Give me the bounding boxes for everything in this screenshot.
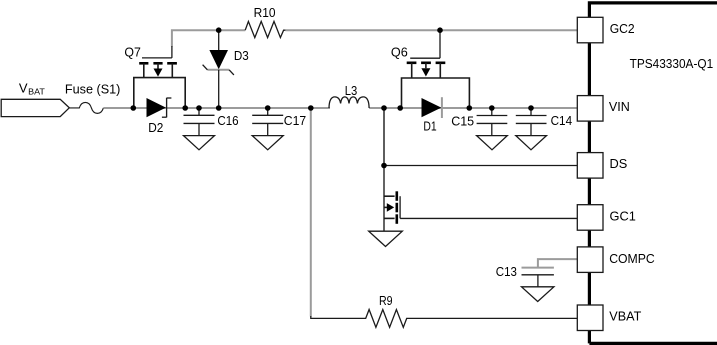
capacitor C17 (252, 108, 306, 136)
wire COMPC net (gray) (538, 259, 579, 267)
resistor R9 (311, 293, 578, 328)
svg-text:Fuse (S1): Fuse (S1) (65, 82, 121, 97)
svg-text:VBAT: VBAT (609, 308, 641, 323)
wire VBAT sense drop (gray) (310, 108, 312, 317)
capacitor C14 (516, 108, 572, 136)
fuse F1 "Fuse (S1)" (65, 82, 121, 114)
pin COMPC (577, 247, 655, 273)
svg-text:R10: R10 (254, 5, 276, 20)
svg-text:L3: L3 (345, 83, 358, 98)
capacitor C16 (184, 108, 239, 136)
wire main battery rail (gray) (103, 107, 330, 109)
svg-text:C16: C16 (217, 113, 238, 128)
pin GC2 (577, 17, 634, 43)
node switch node junction (381, 105, 387, 111)
node C16 junction (196, 105, 202, 111)
svg-text:D1: D1 (423, 118, 436, 133)
diode D1 (422, 97, 442, 133)
node C15 junction (489, 105, 495, 111)
pin VBAT (577, 305, 641, 331)
node Q6 source junction (397, 105, 403, 111)
transistor Q7 (P-ch reverse-battery MOSFET) (124, 44, 185, 108)
svg-text:C14: C14 (551, 113, 573, 128)
ground under low-side MOSFET (369, 231, 403, 246)
node D2 cathode / Q7 drain junction (182, 105, 188, 111)
svg-text:VIN: VIN (609, 99, 630, 114)
node Q6 gate-rail junction (437, 27, 443, 33)
wire gate rail GC2 left segment (gray) (172, 30, 245, 46)
transistor Q6 (P-ch disconnect MOSFET) (391, 30, 470, 108)
svg-text:GC1: GC1 (610, 209, 636, 224)
wire gate rail GC2 right segment (gray) (285, 29, 578, 31)
node DS junction (381, 163, 387, 169)
svg-text:D2: D2 (148, 120, 163, 135)
ground under C14 (516, 136, 547, 150)
IC U1 TPS43330A-Q1 body (589, 3, 717, 344)
wire GC1 gate net (400, 217, 578, 219)
ground under C13 (522, 287, 554, 302)
node C14 junction (528, 105, 534, 111)
inductor L3 (329, 83, 369, 108)
node D3 junction (216, 105, 222, 111)
capacitor C15 (451, 108, 507, 136)
capacitor C13 (496, 264, 554, 287)
resistor R10 (245, 5, 285, 38)
schottky diode D2 (147, 98, 172, 135)
svg-text:D3: D3 (234, 48, 249, 63)
svg-text:R9: R9 (379, 293, 393, 308)
zener diode D3 (203, 30, 249, 108)
svg-text:C15: C15 (451, 113, 474, 128)
pin DS (577, 153, 627, 179)
wire DS net horizontal (384, 165, 578, 167)
svg-text:C17: C17 (284, 113, 306, 128)
wire DS net vertical (383, 108, 385, 166)
node C17 junction (265, 105, 271, 111)
ground under C17 (252, 136, 283, 150)
node D3 gate-rail junction (216, 27, 222, 33)
ground under C16 (184, 136, 215, 150)
junction dots (131, 27, 534, 168)
svg-text:BAT: BAT (28, 86, 45, 96)
svg-text:Q6: Q6 (391, 44, 408, 59)
transistor low-side N-ch MOSFET (384, 166, 400, 232)
svg-text:GC2: GC2 (610, 21, 635, 36)
svg-text:TPS43330A-Q1: TPS43330A-Q1 (630, 56, 714, 71)
ground under C15 (477, 136, 508, 150)
svg-text:Q7: Q7 (124, 44, 140, 59)
svg-text:COMPC: COMPC (609, 251, 655, 266)
node fuse/Q7 source junction (131, 105, 137, 111)
pin GC1 (577, 205, 636, 231)
svg-text:V: V (19, 80, 28, 95)
pin VIN (577, 96, 630, 122)
node R9 branch junction (308, 105, 314, 111)
svg-text:DS: DS (610, 156, 628, 171)
svg-text:C13: C13 (496, 264, 517, 279)
wire switch-node rail after inductor (gray) (369, 107, 578, 109)
node Q6 drain junction (467, 105, 473, 111)
node VBAT input tag (1, 80, 69, 116)
